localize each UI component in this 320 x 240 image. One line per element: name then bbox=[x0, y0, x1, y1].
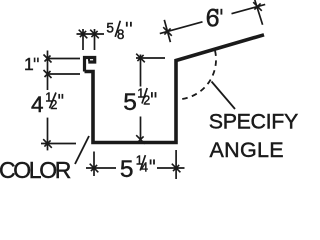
dimension 6 label bbox=[206, 5, 222, 33]
dimension 6 line bbox=[160, 4, 265, 33]
svg-text:1: 1 bbox=[24, 54, 34, 74]
dimension 5/8 ticks bbox=[83, 29, 95, 50]
svg-text:COLOR: COLOR bbox=[0, 157, 71, 179]
dimension 4-1/2 label bbox=[31, 90, 62, 117]
dimension 1 inch / 4-1/2 vertical line bbox=[47, 51, 49, 151]
dimension 5-1/4 label bbox=[120, 154, 154, 184]
dimension 1 inch extension lines bbox=[47, 59, 80, 75]
svg-text:5: 5 bbox=[123, 89, 137, 116]
dimension 5-1/4 line bbox=[86, 167, 185, 169]
dimension 5/8 arrows bbox=[79, 30, 99, 39]
svg-text:2: 2 bbox=[143, 94, 150, 108]
svg-text:6: 6 bbox=[206, 5, 220, 33]
leader line to SPECIFY ANGLE bbox=[212, 82, 236, 110]
svg-text:8: 8 bbox=[117, 27, 125, 42]
leader line to COLOR bbox=[75, 136, 89, 164]
dimension 5-1/4 ticks bbox=[94, 150, 176, 179]
dimension 5-1/2 top extension line bbox=[136, 57, 165, 59]
dimension 4-1/2 bottom extension line bbox=[41, 143, 76, 145]
dimension 4-1/2 bottom arrow bbox=[43, 139, 52, 148]
svg-text:SPECIFY: SPECIFY bbox=[209, 110, 298, 134]
profile main outline: jog, face, bottom, right wall, sloped top bbox=[85, 35, 265, 143]
dimension 5-1/2 label bbox=[123, 87, 155, 117]
dimension 5/8 line bbox=[77, 33, 105, 35]
dimension 1 inch arrows bbox=[44, 55, 52, 79]
dimension 6 arrows bbox=[163, 2, 262, 36]
dimension 5/8 label bbox=[106, 20, 130, 42]
dashed angle arc bbox=[181, 51, 216, 100]
dimension 6 ticks (perpendicular to slope) bbox=[164, 0, 262, 42]
dimension 5-1/2 arrows bbox=[136, 54, 145, 144]
svg-text:5: 5 bbox=[120, 156, 134, 179]
svg-text:ANGLE: ANGLE bbox=[210, 138, 284, 162]
svg-text:4: 4 bbox=[31, 92, 44, 117]
profile hook hem (top left) bbox=[85, 58, 95, 72]
svg-text:5: 5 bbox=[106, 20, 114, 35]
svg-text:4: 4 bbox=[141, 160, 148, 174]
dimension 5-1/2 vertical line bbox=[140, 55, 142, 141]
dimension 5-1/4 arrows bbox=[90, 164, 181, 173]
svg-text:2: 2 bbox=[50, 98, 57, 112]
